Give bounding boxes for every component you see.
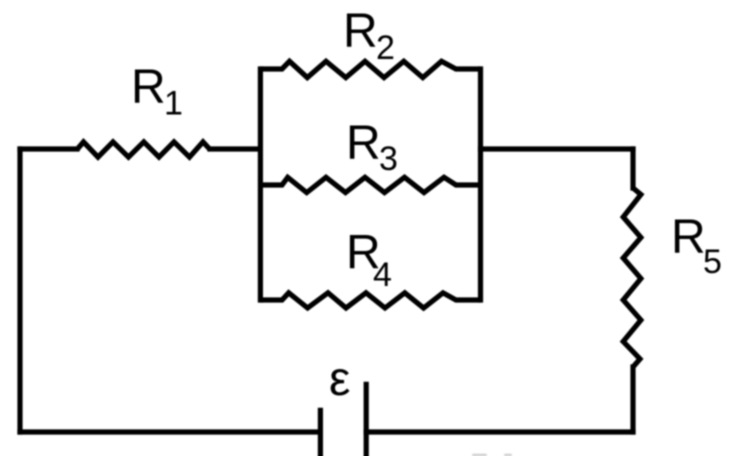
wire box right vertical	[478, 69, 483, 300]
resistor R4	[260, 293, 480, 308]
wire top-left horizontal	[20, 146, 77, 151]
battery plate negative	[318, 408, 323, 456]
wire left vertical	[17, 149, 22, 432]
svg-text:4: 4	[373, 256, 392, 294]
cropped text remnant	[472, 454, 512, 456]
svg-text:R: R	[346, 117, 381, 170]
resistor R1	[77, 142, 210, 157]
wire bottom right	[366, 429, 633, 434]
wire right vertical bottom	[630, 367, 635, 432]
svg-text:2: 2	[376, 29, 395, 67]
svg-text:1: 1	[164, 85, 183, 123]
svg-text:5: 5	[703, 243, 722, 281]
svg-text:R: R	[671, 211, 706, 264]
wire right vertical top	[630, 149, 635, 188]
resistor R3	[260, 177, 480, 192]
svg-text:R: R	[131, 61, 166, 114]
wire box to right	[481, 146, 634, 151]
resistor R2	[260, 61, 480, 77]
svg-text:3: 3	[379, 140, 398, 178]
wire box left vertical	[258, 69, 263, 300]
wire R1 to box	[210, 146, 260, 151]
wire bottom left	[20, 429, 320, 434]
svg-text:R: R	[343, 5, 378, 58]
resistor R5	[623, 188, 641, 367]
svg-text:ε: ε	[329, 353, 350, 406]
battery plate positive	[364, 382, 369, 456]
